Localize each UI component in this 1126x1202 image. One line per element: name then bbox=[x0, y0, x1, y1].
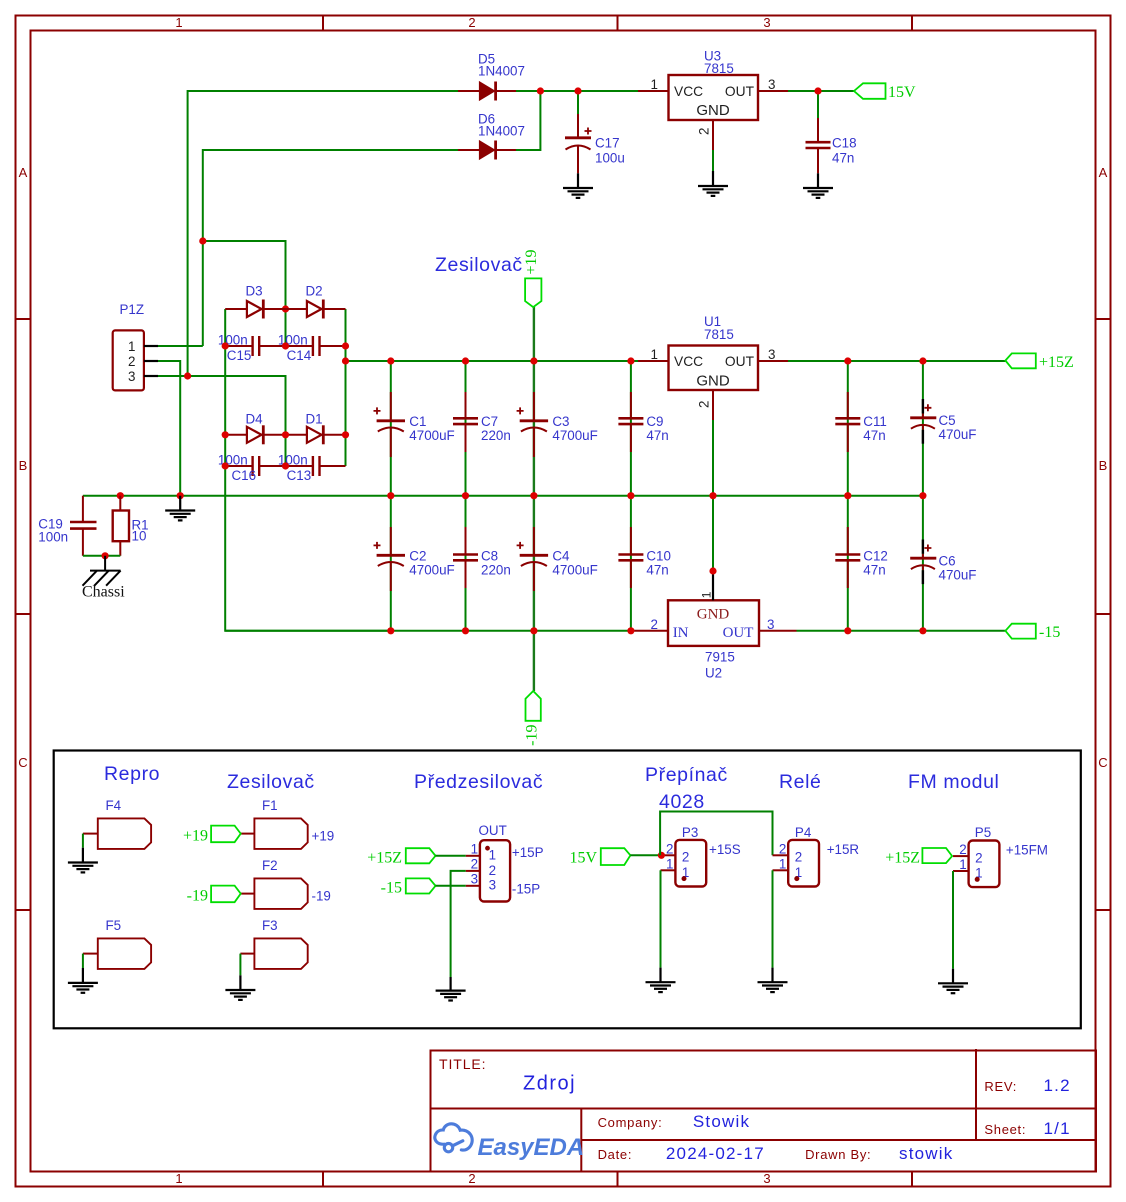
svg-text:2: 2 bbox=[795, 850, 802, 865]
svg-text:-19: -19 bbox=[312, 889, 331, 904]
wire mid rail y=495.7 bbox=[83, 495, 923, 497]
resistor R1 10 bbox=[113, 496, 149, 556]
junction node U2 pin1 bbox=[709, 567, 716, 574]
svg-text:470uF: 470uF bbox=[939, 427, 977, 442]
svg-text:U2: U2 bbox=[705, 666, 722, 681]
net flag 15V (P3) bbox=[569, 848, 630, 866]
panel box bbox=[54, 751, 1081, 1029]
wire C9 column bbox=[630, 361, 632, 496]
svg-text:1N4007: 1N4007 bbox=[478, 124, 525, 139]
svg-text:-15P: -15P bbox=[512, 882, 540, 897]
border tick left 2 bbox=[16, 613, 31, 615]
svg-text:B: B bbox=[1099, 458, 1108, 473]
svg-text:TITLE:: TITLE: bbox=[439, 1056, 486, 1072]
svg-text:C18: C18 bbox=[832, 136, 857, 151]
svg-text:C11: C11 bbox=[863, 414, 887, 429]
svg-text:Zesilovač: Zesilovač bbox=[227, 771, 315, 793]
svg-text:C16: C16 bbox=[232, 468, 257, 483]
capacitor C6 470uF polarized bbox=[910, 540, 976, 585]
svg-text:+19: +19 bbox=[312, 829, 335, 844]
capacitor C17 100u polarized bbox=[565, 114, 625, 173]
junction node C12 bottom bbox=[844, 627, 851, 634]
junction dot D4/D1 bbox=[282, 431, 289, 438]
junction node C1 top bbox=[387, 357, 394, 364]
wire C18 lead bbox=[817, 91, 819, 120]
junction node D5 D6 bbox=[537, 87, 544, 94]
wire 4028 loop P3 to P4 bbox=[660, 812, 772, 856]
wire bridge right vertical x=345.5 bbox=[345, 309, 347, 466]
svg-text:2: 2 bbox=[959, 842, 966, 857]
wire C2 column bbox=[390, 496, 392, 631]
svg-text:1: 1 bbox=[700, 591, 714, 598]
svg-text:+15R: +15R bbox=[827, 842, 860, 857]
wire D3/D2 node down to C15/C14 node bbox=[285, 309, 287, 346]
svg-text:REV:: REV: bbox=[984, 1079, 1017, 1094]
capacitor C13 100n bbox=[278, 453, 346, 484]
svg-text:P5: P5 bbox=[975, 825, 991, 840]
border tick right 2 bbox=[1096, 613, 1111, 615]
svg-text:C3: C3 bbox=[552, 414, 569, 429]
junction node C2 bottom bbox=[387, 627, 394, 634]
svg-text:7915: 7915 bbox=[705, 650, 735, 665]
svg-text:2: 2 bbox=[468, 1171, 475, 1186]
svg-text:Date:: Date: bbox=[598, 1147, 633, 1162]
wire P5 pin1 to ground bbox=[952, 871, 954, 969]
connector F3 bbox=[240, 918, 307, 969]
svg-text:stowik: stowik bbox=[899, 1144, 953, 1163]
title block logo divider bbox=[580, 1109, 582, 1172]
connector F2 bbox=[241, 858, 331, 909]
svg-text:10: 10 bbox=[132, 529, 147, 544]
svg-text:C2: C2 bbox=[409, 549, 426, 564]
capacitor C5 470uF polarized bbox=[910, 399, 976, 444]
svg-text:FM modul: FM modul bbox=[908, 771, 999, 793]
wire bridge left vertical x=225.2 bbox=[225, 309, 391, 631]
wire C19 R1 bottom bbox=[83, 555, 120, 557]
wire U3 gnd to ground bbox=[712, 150, 714, 172]
junction dot C16/C13 bbox=[282, 462, 289, 469]
svg-text:F1: F1 bbox=[262, 798, 278, 813]
connector F4 bbox=[83, 798, 151, 849]
svg-text:C15: C15 bbox=[227, 348, 252, 363]
capacitor C4 4700uF bbox=[517, 527, 598, 591]
svg-text:2: 2 bbox=[489, 863, 496, 878]
junction node C7 top bbox=[462, 357, 469, 364]
junction node C8 top bbox=[462, 492, 469, 499]
svg-text:D1: D1 bbox=[306, 412, 323, 427]
junction node C5 top bbox=[919, 357, 926, 364]
svg-text:4700uF: 4700uF bbox=[409, 428, 454, 443]
svg-text:C7: C7 bbox=[481, 414, 498, 429]
junction node bridge+ rail bbox=[342, 357, 349, 364]
svg-text:15V: 15V bbox=[888, 84, 916, 101]
svg-text:1N4007: 1N4007 bbox=[478, 64, 525, 79]
wire minus rail y=630.8 bbox=[225, 630, 634, 632]
svg-text:EasyEDA: EasyEDA bbox=[478, 1134, 585, 1161]
capacitor C9 47n bbox=[618, 392, 668, 452]
capacitor C15 100n bbox=[218, 333, 286, 364]
capacitor C7 220n bbox=[453, 392, 511, 452]
svg-text:Repro: Repro bbox=[104, 763, 160, 785]
junction dot C15 left bbox=[222, 342, 229, 349]
svg-text:C1: C1 bbox=[409, 414, 426, 429]
svg-text:-15: -15 bbox=[381, 880, 402, 897]
svg-text:2: 2 bbox=[128, 354, 135, 369]
junction dot chassis bbox=[102, 552, 109, 559]
net port +19 (down) bbox=[523, 249, 541, 307]
svg-text:Předzesilovač: Předzesilovač bbox=[414, 771, 543, 793]
svg-text:C4: C4 bbox=[552, 549, 570, 564]
junction dot C14 right bbox=[342, 342, 349, 349]
net flag +15Z bbox=[1005, 353, 1073, 371]
svg-text:4700uF: 4700uF bbox=[552, 428, 597, 443]
svg-text:F4: F4 bbox=[106, 798, 122, 813]
svg-text:F5: F5 bbox=[106, 918, 122, 933]
diode D5 bbox=[458, 52, 525, 101]
net flag +15Z (OUT pin1) bbox=[367, 848, 435, 866]
wire F4 to ground bbox=[82, 834, 84, 848]
diode D6 bbox=[458, 112, 525, 160]
wire C8 column bbox=[465, 496, 467, 631]
junction node C6 bottom bbox=[919, 627, 926, 634]
capacitor C16 100n bbox=[218, 453, 286, 484]
capacitor C14 100n bbox=[278, 333, 346, 364]
ground mid rail (P1Z pin2) bbox=[165, 496, 195, 521]
svg-text:2: 2 bbox=[975, 850, 982, 865]
border tick right 1 bbox=[1096, 318, 1111, 320]
ground under C18 bbox=[803, 173, 833, 198]
wire +15Z to OUT pin1 bbox=[436, 855, 466, 857]
border tick right 3 bbox=[1096, 909, 1111, 911]
wire C6 column bbox=[922, 496, 924, 631]
svg-text:+15Z: +15Z bbox=[1039, 354, 1074, 371]
border tick bottom 3 bbox=[911, 1172, 913, 1187]
svg-text:4700uF: 4700uF bbox=[552, 563, 597, 578]
junction dot C18 bbox=[814, 87, 821, 94]
svg-text:-19: -19 bbox=[187, 888, 208, 905]
capacitor C19 100n bbox=[38, 496, 96, 556]
svg-text:7815: 7815 bbox=[704, 61, 734, 76]
svg-text:100u: 100u bbox=[595, 151, 625, 166]
svg-text:1: 1 bbox=[959, 857, 966, 872]
ground under U3 bbox=[698, 171, 728, 196]
svg-text:47n: 47n bbox=[863, 428, 885, 443]
border tick left 3 bbox=[16, 909, 31, 911]
svg-text:OUT: OUT bbox=[725, 84, 755, 99]
svg-text:+19: +19 bbox=[523, 249, 540, 274]
svg-text:3: 3 bbox=[763, 1171, 770, 1186]
svg-text:P3: P3 bbox=[682, 825, 698, 840]
chassis ground bbox=[83, 556, 121, 586]
svg-text:Relé: Relé bbox=[779, 771, 822, 793]
junction node C4 -19 bottom bbox=[530, 627, 537, 634]
svg-text:A: A bbox=[19, 165, 28, 180]
wire C1 column bbox=[390, 361, 392, 496]
junction dot P3 pin2 bbox=[658, 852, 665, 859]
junction node C10 top bbox=[627, 492, 634, 499]
svg-text:VCC: VCC bbox=[674, 84, 703, 99]
svg-text:1: 1 bbox=[471, 842, 478, 857]
wire plus rail right of U1 bbox=[788, 360, 1005, 362]
svg-text:3: 3 bbox=[128, 369, 135, 384]
svg-text:+15FM: +15FM bbox=[1006, 843, 1048, 858]
connector F1 bbox=[241, 798, 335, 849]
svg-text:4700uF: 4700uF bbox=[409, 563, 454, 578]
junction dot AC1 branch bbox=[199, 237, 206, 244]
ground P4 bbox=[758, 968, 788, 993]
wire C12 column bbox=[847, 496, 849, 631]
junction dot D1 right bbox=[342, 431, 349, 438]
svg-text:1/1: 1/1 bbox=[1044, 1119, 1071, 1138]
svg-text:Zdroj: Zdroj bbox=[523, 1073, 576, 1095]
svg-text:OUT: OUT bbox=[723, 625, 754, 641]
svg-text:1: 1 bbox=[666, 856, 673, 871]
net flag -15 (OUT pin3) bbox=[381, 878, 436, 896]
junction dot C17 bbox=[574, 87, 581, 94]
svg-text:Sheet:: Sheet: bbox=[984, 1122, 1026, 1137]
ground F3 bbox=[225, 975, 255, 1000]
svg-text:100n: 100n bbox=[38, 530, 68, 545]
svg-text:3: 3 bbox=[767, 617, 774, 632]
wire 15V to P3 pin2 bbox=[630, 854, 660, 856]
title block sheet divider bbox=[581, 1139, 1096, 1141]
connector P1Z bbox=[113, 302, 158, 390]
wire P1Z pin1 to D6 vertical bbox=[158, 345, 203, 347]
net flag +19 (F1) bbox=[183, 826, 241, 845]
svg-text:C8: C8 bbox=[481, 549, 498, 564]
svg-text:C6: C6 bbox=[939, 554, 956, 569]
svg-text:D2: D2 bbox=[306, 284, 323, 299]
svg-text:470uF: 470uF bbox=[939, 568, 977, 583]
svg-text:Přepínač: Přepínač bbox=[645, 764, 728, 786]
svg-text:C14: C14 bbox=[287, 348, 312, 363]
capacitor C3 4700uF bbox=[517, 392, 598, 457]
svg-text:1: 1 bbox=[651, 77, 658, 92]
svg-text:1: 1 bbox=[651, 347, 658, 362]
wire F3 to ground bbox=[239, 954, 241, 976]
wire P3 pin1 to ground bbox=[660, 870, 662, 967]
capacitor C18 47n bbox=[806, 118, 857, 173]
svg-text:1: 1 bbox=[175, 15, 182, 30]
capacitor C2 4700uF bbox=[374, 527, 455, 591]
border tick top 3 bbox=[911, 16, 913, 31]
wire C7 column bbox=[465, 361, 467, 496]
svg-text:P4: P4 bbox=[795, 825, 812, 840]
title block v divider right col bbox=[975, 1049, 977, 1140]
svg-text:C: C bbox=[1098, 755, 1107, 770]
svg-text:OUT: OUT bbox=[725, 354, 755, 369]
svg-text:-19: -19 bbox=[524, 725, 541, 746]
capacitor C10 47n bbox=[618, 527, 671, 588]
svg-text:3: 3 bbox=[489, 878, 496, 893]
svg-text:C9: C9 bbox=[646, 414, 663, 429]
capacitor C1 4700uF bbox=[374, 392, 455, 457]
junction node C2 top bbox=[387, 492, 394, 499]
svg-text:GND: GND bbox=[696, 373, 730, 390]
svg-text:+15P: +15P bbox=[512, 845, 544, 860]
title block h divider bbox=[431, 1108, 1096, 1110]
title block outline bbox=[431, 1051, 1097, 1172]
ground P5 bbox=[938, 969, 968, 994]
border tick bottom 2 bbox=[617, 1172, 619, 1187]
voltage regulator U1 7815 bbox=[638, 314, 788, 420]
ground OUT conn bbox=[436, 977, 466, 1001]
svg-text:C13: C13 bbox=[287, 468, 312, 483]
svg-text:F2: F2 bbox=[262, 858, 278, 873]
svg-text:Stowik: Stowik bbox=[693, 1112, 750, 1131]
svg-text:Zesilovač: Zesilovač bbox=[435, 254, 523, 276]
junction node C12 top bbox=[844, 492, 851, 499]
junction node R1 top bbox=[117, 492, 124, 499]
svg-text:3: 3 bbox=[763, 15, 770, 30]
wire OUT pin2 to ground bbox=[451, 871, 466, 977]
svg-text:15V: 15V bbox=[569, 850, 597, 867]
diode D1 bbox=[286, 412, 346, 445]
wire -15 to OUT pin3 bbox=[436, 885, 466, 887]
svg-text:2: 2 bbox=[697, 128, 712, 135]
svg-text:Drawn By:: Drawn By: bbox=[805, 1147, 871, 1162]
ground F4 bbox=[68, 848, 98, 873]
junction node C11 top bbox=[844, 357, 851, 364]
svg-text:2: 2 bbox=[468, 15, 475, 30]
svg-text:3: 3 bbox=[768, 347, 775, 362]
svg-text:+15Z: +15Z bbox=[885, 850, 920, 867]
svg-text:+15S: +15S bbox=[709, 842, 741, 857]
wire C4 -19 column bbox=[533, 496, 535, 691]
svg-text:7815: 7815 bbox=[704, 327, 734, 342]
capacitor C11 47n bbox=[835, 392, 887, 452]
svg-text:GND: GND bbox=[696, 102, 730, 119]
junction node gnd mid rail bbox=[177, 492, 184, 499]
svg-text:2: 2 bbox=[666, 841, 673, 856]
svg-text:47n: 47n bbox=[863, 563, 885, 578]
wire minus rail right of U2 bbox=[797, 630, 1006, 632]
svg-text:2: 2 bbox=[682, 850, 689, 865]
voltage regulator U3 7815 bbox=[638, 49, 788, 151]
svg-text:2: 2 bbox=[697, 401, 712, 408]
svg-text:A: A bbox=[1099, 165, 1108, 180]
diode D2 bbox=[286, 284, 346, 319]
wire C11 column bbox=[847, 361, 849, 496]
junction dot C15/C14 bbox=[282, 342, 289, 349]
ground P3 bbox=[646, 968, 676, 993]
svg-text:C: C bbox=[18, 755, 27, 770]
svg-text:Company:: Company: bbox=[598, 1115, 663, 1130]
svg-text:1: 1 bbox=[779, 856, 786, 871]
svg-text:+15Z: +15Z bbox=[367, 850, 402, 867]
wire D6 net vertical x=202.8 bbox=[203, 150, 458, 346]
svg-text:4028: 4028 bbox=[659, 791, 705, 813]
wire U3 out to 15V flag bbox=[788, 90, 854, 92]
svg-text:D3: D3 bbox=[246, 284, 263, 299]
capacitor C12 47n bbox=[835, 527, 888, 588]
wire P1Z pin2 down to mid rail bbox=[158, 361, 180, 496]
junction node C8 bottom bbox=[462, 627, 469, 634]
svg-text:220n: 220n bbox=[481, 563, 511, 578]
junction node C4 top bbox=[530, 492, 537, 499]
svg-text:C5: C5 bbox=[939, 413, 956, 428]
connector OUT (Predzesilovac) bbox=[466, 823, 544, 902]
svg-text:220n: 220n bbox=[481, 428, 511, 443]
border tick top 2 bbox=[617, 16, 619, 31]
border tick top 1 bbox=[322, 16, 324, 31]
wire D5 net vertical x=187.6 bbox=[188, 91, 458, 376]
svg-text:-15: -15 bbox=[1039, 624, 1060, 641]
svg-text:B: B bbox=[19, 458, 28, 473]
junction node U1 gnd mid rail bbox=[709, 492, 716, 499]
wire plus rail y=361 bbox=[346, 360, 639, 362]
svg-text:P1Z: P1Z bbox=[120, 302, 145, 317]
ground under C17 bbox=[563, 173, 593, 198]
wire C10 column bbox=[630, 496, 632, 631]
wire AC1 branch to D3/D2 node bbox=[203, 241, 286, 309]
net flag -19 (F2) bbox=[187, 886, 241, 905]
svg-text:47n: 47n bbox=[646, 563, 668, 578]
svg-text:OUT: OUT bbox=[479, 823, 507, 838]
svg-text:3: 3 bbox=[471, 872, 478, 887]
junction dot C16 left bbox=[222, 462, 229, 469]
wire F5 to ground bbox=[82, 954, 84, 968]
svg-text:2: 2 bbox=[779, 841, 786, 856]
svg-text:47n: 47n bbox=[832, 151, 854, 166]
svg-text:3: 3 bbox=[768, 77, 775, 92]
net flag 15V bbox=[854, 83, 916, 101]
net port -19 (up) bbox=[524, 691, 541, 746]
wire bridge mid down to C16/C13 node bbox=[285, 435, 287, 466]
svg-text:2024-02-17: 2024-02-17 bbox=[666, 1144, 765, 1163]
diode D4 bbox=[225, 412, 285, 445]
svg-text:2: 2 bbox=[471, 857, 478, 872]
junction node C9 top bbox=[627, 357, 634, 364]
junction node C3 +19 top bbox=[530, 357, 537, 364]
wire C5 column bbox=[922, 361, 924, 496]
wire D6 cathode up to D5 rail bbox=[516, 91, 540, 150]
svg-text:1.2: 1.2 bbox=[1044, 1076, 1071, 1095]
junction dot pin3 D5 bbox=[184, 372, 191, 379]
ground F5 bbox=[68, 968, 98, 993]
svg-text:+19: +19 bbox=[183, 828, 208, 845]
connector F5 bbox=[83, 918, 151, 969]
junction node C10 bottom bbox=[627, 627, 634, 634]
svg-text:GND: GND bbox=[697, 607, 730, 623]
wire U1 gnd column bbox=[712, 420, 714, 571]
connector P3 bbox=[661, 825, 741, 887]
junction dot D3 D2 bbox=[282, 305, 289, 312]
EasyEDA logo cloud bbox=[435, 1124, 472, 1152]
svg-text:F3: F3 bbox=[262, 918, 278, 933]
net flag +15Z (P5) bbox=[885, 848, 952, 867]
svg-text:D4: D4 bbox=[246, 412, 264, 427]
svg-text:1: 1 bbox=[128, 339, 135, 354]
wire C3 +19 column bbox=[533, 307, 535, 496]
svg-text:C12: C12 bbox=[863, 549, 888, 564]
svg-text:VCC: VCC bbox=[674, 354, 703, 369]
voltage regulator U2 7915 bbox=[634, 571, 796, 681]
junction dot D4 left bbox=[222, 431, 229, 438]
wire D5 cathode to U3 pin1 bbox=[516, 90, 638, 92]
svg-text:C17: C17 bbox=[595, 136, 620, 151]
connector P4 bbox=[773, 825, 860, 887]
wire P1Z pin3 to bridge mid bbox=[158, 376, 286, 435]
junction node C6 top bbox=[919, 492, 926, 499]
wire P4 pin1 to ground bbox=[772, 870, 774, 967]
svg-text:1: 1 bbox=[489, 848, 496, 863]
svg-text:IN: IN bbox=[673, 625, 689, 641]
svg-text:1: 1 bbox=[175, 1171, 182, 1186]
svg-text:47n: 47n bbox=[646, 428, 668, 443]
border tick bottom 1 bbox=[322, 1172, 324, 1187]
svg-text:C10: C10 bbox=[646, 549, 671, 564]
